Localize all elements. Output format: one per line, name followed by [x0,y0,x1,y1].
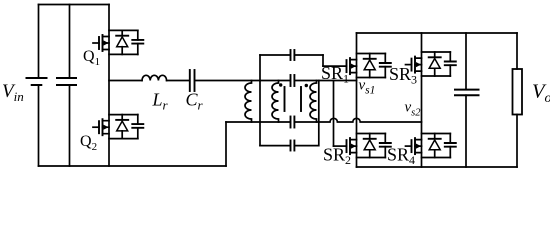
transistor SR3 [406,52,456,76]
wire bottom cap branch left [260,145,290,147]
capacitor input bus plates [57,78,76,85]
capacitor bottom branch [291,141,295,151]
wire SR2 gate feed vertical [333,81,335,147]
wire Cr to transformer bus1 [195,80,289,82]
transistor SR4 body diode triangle [429,140,440,150]
transistor SR4 arrow [416,144,421,149]
wire rectifier top rail [357,32,518,34]
wire output cap column bottom [465,95,467,167]
wire bus2 left drop [225,122,227,166]
wire half-bridge column [108,5,110,167]
wire top-left rail [39,4,110,6]
transistor SR2 body diode triangle [364,140,375,150]
wire rectifier bottom rail [357,166,518,168]
transistor SR2 arrow [351,144,356,149]
svg-text:vs1: vs1 [359,78,376,97]
svg-text:Cr: Cr [186,90,204,113]
wire load column top [516,33,518,69]
wire bottom-left rail [39,165,227,167]
transistor Q1 arrow [103,40,108,45]
transistor SR1 [347,54,391,78]
wire Lr to Cr [167,80,189,82]
capacitor interwinding on bus2 [291,117,295,128]
transformer secondary dot [305,84,308,87]
transistor Q2 body diode triangle [117,121,128,131]
svg-text:SR3: SR3 [389,64,417,87]
wire SR right leg column [421,33,423,167]
inductor Lr [142,75,167,80]
wire input-cap branch top [69,5,71,79]
svg-text:Q1: Q1 [83,48,100,68]
wire SR left leg column [356,33,358,167]
wire load column bottom [516,115,518,168]
transistor Q1 [93,30,143,54]
capacitor output plates [455,90,479,96]
svg-text:Vin: Vin [2,81,24,104]
wire battery branch top [38,5,40,79]
wire top cap branch left [260,54,290,56]
transistor SR4 [406,134,456,158]
wire top branch left drop [259,55,261,81]
wire battery branch bottom [38,85,40,166]
transformer secondary winding [310,81,316,123]
svg-text:Lr: Lr [152,90,169,113]
wire input-cap branch bottom [69,85,71,166]
wire output cap column top [465,33,467,90]
capacitor Cr plates [190,70,195,91]
capacitor interwinding on bus1 [291,75,295,86]
transistor SR1 arrow [351,64,356,69]
transformer primary dot [279,83,282,86]
wire node column x260 [259,81,261,146]
inductor Lm magnetizing [245,81,251,123]
svg-text:Vo: Vo [532,81,550,107]
transistor Q2 arrow [103,125,108,130]
svg-text:Q2: Q2 [80,133,97,153]
transistor SR2 [347,134,391,158]
wire secondary bottom drop [318,81,320,146]
transistor SR1 body diode triangle [364,60,375,70]
transformer primary winding [272,81,278,123]
transistor SR3 arrow [416,62,421,67]
wire SR2 gate lead [334,145,347,147]
battery Vin plates [27,78,47,85]
resistor load Vo box [513,69,523,115]
wire bottom cap branch right with corner [295,145,318,147]
wire bus1 right part to SR left leg [295,80,356,82]
transistor SR3 body diode triangle [429,59,440,69]
svg-text:vs2: vs2 [405,100,422,119]
wire top cap branch right [295,54,323,56]
wire bus2 with crossover hops [226,118,422,122]
wire top branch right drop [322,55,324,66]
capacitor top branch [291,50,295,60]
transformer core line right [300,87,302,111]
wire switch node to Lr [109,80,142,82]
transistor Q1 body diode triangle [117,37,128,47]
wire SR1 gate lead [323,65,347,67]
transformer core line left [284,87,286,111]
transistor Q2 [93,115,143,139]
